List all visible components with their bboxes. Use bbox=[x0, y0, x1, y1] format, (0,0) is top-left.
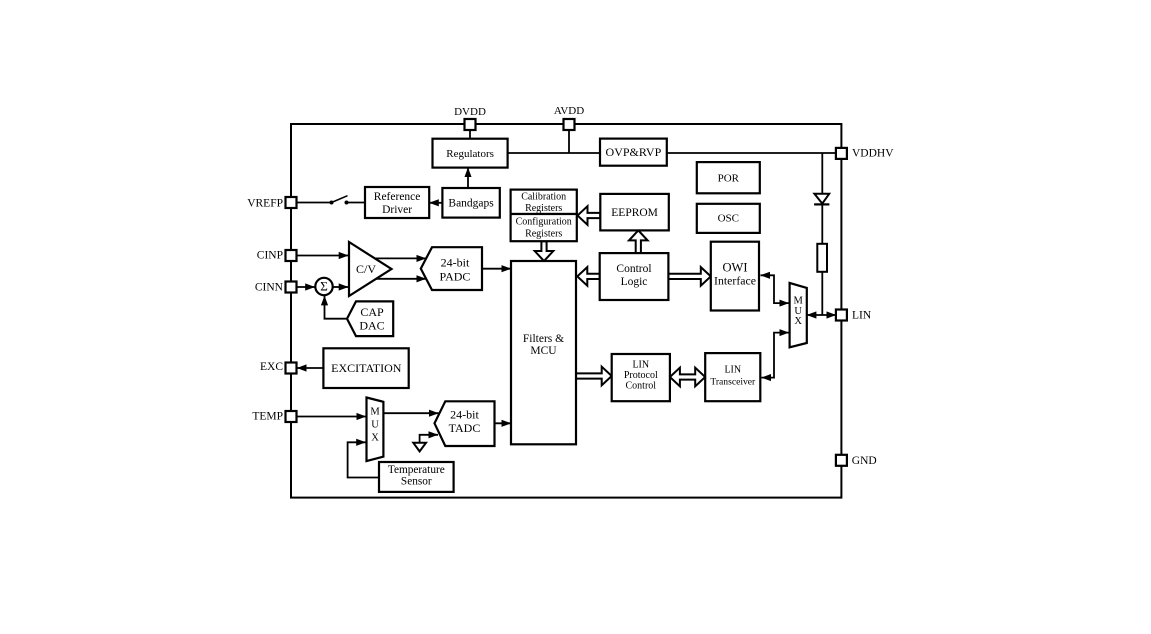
svg-text:Regulators: Regulators bbox=[446, 148, 494, 160]
svg-text:DVDD: DVDD bbox=[454, 106, 486, 118]
svg-text:Calibration: Calibration bbox=[521, 192, 566, 203]
svg-text:Configuration: Configuration bbox=[516, 216, 572, 227]
svg-text:X: X bbox=[371, 433, 379, 444]
svg-text:24-bit: 24-bit bbox=[450, 408, 479, 422]
svg-text:X: X bbox=[794, 316, 802, 327]
svg-text:LIN: LIN bbox=[852, 310, 872, 322]
svg-text:M: M bbox=[370, 407, 380, 418]
svg-text:EXCITATION: EXCITATION bbox=[331, 361, 402, 375]
svg-text:Control: Control bbox=[626, 381, 657, 392]
svg-text:DAC: DAC bbox=[359, 319, 384, 333]
svg-text:VREFP: VREFP bbox=[247, 197, 283, 209]
svg-text:MCU: MCU bbox=[530, 345, 557, 357]
svg-text:Filters &: Filters & bbox=[523, 333, 564, 345]
svg-text:Reference: Reference bbox=[374, 191, 421, 203]
svg-text:Transceiver: Transceiver bbox=[710, 377, 756, 388]
svg-text:U: U bbox=[371, 420, 379, 431]
svg-text:CAP: CAP bbox=[360, 305, 384, 319]
svg-text:Bandgaps: Bandgaps bbox=[448, 198, 494, 210]
svg-text:OSC: OSC bbox=[718, 212, 739, 224]
svg-text:C/V: C/V bbox=[356, 262, 376, 276]
svg-text:LIN: LIN bbox=[632, 360, 649, 371]
svg-text:Control: Control bbox=[616, 263, 651, 275]
svg-text:Sensor: Sensor bbox=[401, 476, 432, 488]
svg-text:OWI: OWI bbox=[723, 261, 748, 275]
svg-text:VDDHV: VDDHV bbox=[852, 148, 894, 160]
svg-text:Σ: Σ bbox=[320, 279, 328, 294]
svg-text:CINN: CINN bbox=[255, 282, 284, 294]
svg-text:POR: POR bbox=[718, 173, 740, 185]
svg-text:Protocol: Protocol bbox=[624, 370, 658, 381]
svg-text:OVP&RVP: OVP&RVP bbox=[606, 145, 662, 159]
svg-text:Temperature: Temperature bbox=[388, 464, 445, 476]
svg-text:24-bit: 24-bit bbox=[441, 256, 470, 270]
svg-text:GND: GND bbox=[852, 455, 877, 467]
svg-text:EXC: EXC bbox=[260, 361, 283, 373]
svg-text:CINP: CINP bbox=[257, 250, 283, 262]
svg-text:Registers: Registers bbox=[525, 229, 562, 240]
svg-text:EEPROM: EEPROM bbox=[611, 207, 658, 219]
svg-text:Registers: Registers bbox=[525, 203, 562, 214]
svg-text:TEMP: TEMP bbox=[252, 410, 283, 422]
svg-text:TADC: TADC bbox=[449, 421, 481, 435]
svg-text:Logic: Logic bbox=[621, 276, 648, 288]
svg-text:LIN: LIN bbox=[724, 365, 741, 376]
svg-text:Interface: Interface bbox=[714, 274, 756, 288]
svg-text:PADC: PADC bbox=[440, 269, 471, 283]
svg-text:Driver: Driver bbox=[382, 204, 412, 216]
svg-text:AVDD: AVDD bbox=[554, 105, 584, 117]
